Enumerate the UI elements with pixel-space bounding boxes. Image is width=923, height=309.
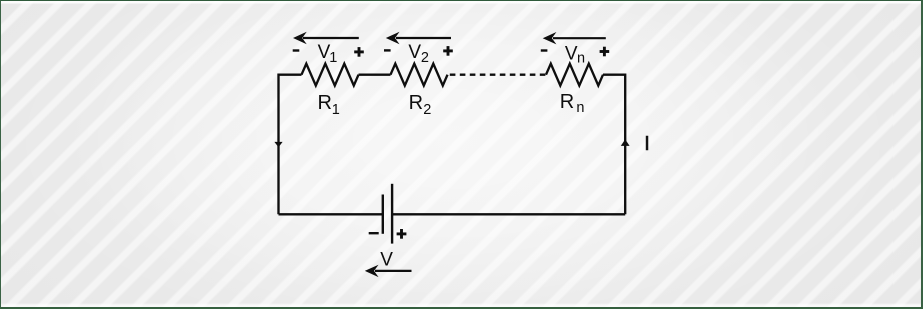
minus of V2: [384, 49, 391, 51]
resistor Rn: [546, 64, 603, 86]
svg-text:2: 2: [420, 50, 428, 66]
svg-text:R: R: [559, 91, 573, 113]
svg-text:V: V: [408, 42, 421, 63]
label Vn: [564, 43, 584, 66]
wire bottom-left segment: [278, 213, 382, 215]
svg-text:V: V: [317, 42, 330, 63]
svg-text:2: 2: [423, 102, 431, 118]
plus of V1: [354, 47, 364, 57]
minus of V1: [292, 49, 299, 51]
plus of Vn: [599, 47, 609, 57]
plus of battery: [396, 229, 406, 239]
battery V: long positive plate: [390, 184, 392, 244]
resistor R1: [301, 64, 358, 86]
label R2: [408, 92, 431, 118]
svg-text:R: R: [408, 92, 422, 114]
voltage arrow Vn: [543, 33, 605, 43]
label R1: [317, 92, 339, 118]
plus of V2: [443, 46, 453, 56]
wire bottom-right segment: [392, 213, 625, 215]
wire between R1 and R2: [358, 74, 390, 76]
svg-text:V: V: [564, 43, 577, 64]
label Rn: [559, 91, 584, 116]
svg-text:n: n: [577, 51, 585, 67]
dashed wire between R2 and Rn: [449, 74, 545, 76]
svg-text:R: R: [317, 92, 331, 114]
voltage arrow V2: [386, 33, 450, 43]
wire top-right segment + right vertical: [603, 75, 625, 215]
svg-text:1: 1: [331, 102, 339, 118]
svg-text:1: 1: [329, 50, 337, 66]
current arrowhead on right wire (up): [620, 139, 629, 146]
svg-text:n: n: [576, 100, 584, 116]
voltage arrow V1: [294, 33, 359, 43]
minus of battery: [368, 232, 378, 234]
label V2: [408, 42, 429, 66]
svg-text:I: I: [644, 133, 650, 155]
wire left vertical + top-left segment: [278, 75, 301, 215]
label V1: [317, 42, 337, 66]
current arrowhead on left wire (down): [274, 142, 282, 147]
battery V: short negative plate: [381, 195, 383, 234]
voltage arrow V of battery (left): [365, 266, 411, 276]
minus of Vn: [540, 49, 547, 51]
resistor R2: [390, 64, 447, 86]
svg-text:V: V: [380, 249, 393, 270]
